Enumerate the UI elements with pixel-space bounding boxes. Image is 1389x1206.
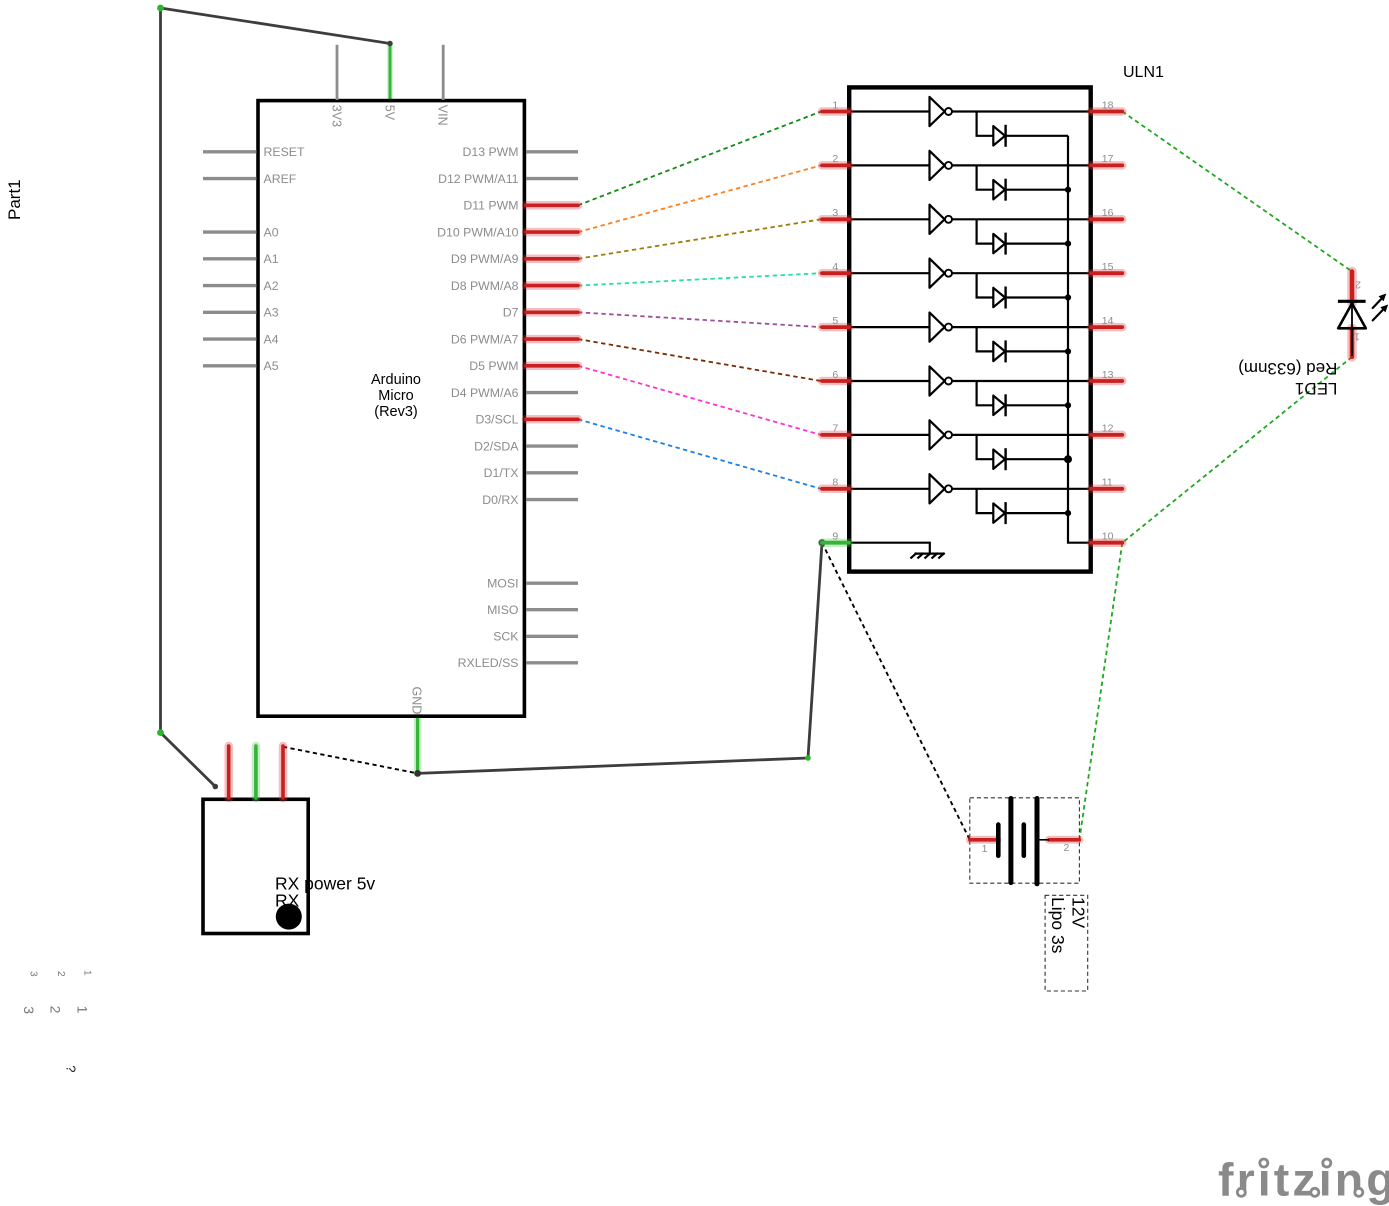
- junction diode rail channel 8: [1065, 510, 1071, 516]
- svg-text:2: 2: [1064, 842, 1070, 854]
- svg-text:ArduinoMicro(Rev3): ArduinoMicro(Rev3): [371, 372, 421, 420]
- svg-text:5: 5: [832, 315, 838, 327]
- pin A3: [203, 306, 279, 320]
- pin D11 PWM: [463, 199, 578, 213]
- LED LED1 lead pin 2: [1347, 272, 1357, 304]
- pin D13 PWM: [462, 145, 578, 159]
- svg-text:MISO: MISO: [487, 603, 518, 617]
- battery plate tall 2: [1035, 799, 1040, 884]
- inverter channel 5 input wire: [851, 326, 930, 328]
- LED LED1 center line: [1351, 301, 1353, 356]
- part RX power 5v body: [203, 799, 308, 933]
- svg-text:Red (633nm): Red (633nm): [1238, 359, 1337, 378]
- svg-text:1: 1: [982, 843, 988, 855]
- pin 2 ULN left: [822, 153, 849, 165]
- pin 5V: [383, 105, 397, 121]
- pin D0/RX: [482, 493, 578, 507]
- LED LED1 emission arrow 2: [1373, 305, 1389, 321]
- pin MISO: [487, 603, 578, 617]
- svg-text:Part1: Part1: [5, 179, 24, 220]
- inverter channel 8 output wire: [952, 488, 1089, 490]
- svg-text:2: 2: [832, 153, 838, 165]
- pin 14 ULN right: [1091, 315, 1122, 327]
- pin D12 PWM/A11: [438, 172, 578, 186]
- svg-text:D12 PWM/A11: D12 PWM/A11: [438, 172, 519, 186]
- wire common diode rail to pin 10: [1068, 136, 1089, 543]
- svg-text:2: 2: [55, 971, 66, 977]
- svg-text:D7: D7: [503, 306, 519, 320]
- diode channel 2 symbol: [993, 179, 1005, 201]
- svg-text:D3/SCL: D3/SCL: [475, 413, 518, 427]
- inverter channel 3 input wire: [851, 218, 930, 220]
- svg-text:1: 1: [832, 99, 838, 111]
- diode channel 6 symbol: [993, 394, 1005, 416]
- node wire end dot near RX: [213, 784, 219, 790]
- svg-text:8: 8: [832, 477, 838, 489]
- pin A0: [203, 226, 279, 240]
- svg-text:D1/TX: D1/TX: [484, 466, 519, 480]
- svg-text:6: 6: [832, 369, 838, 381]
- wire D11 to ULN pin 1: [578, 112, 821, 206]
- svg-text:A0: A0: [264, 226, 279, 240]
- inverter channel 6 output wire: [952, 380, 1089, 382]
- svg-text:3: 3: [27, 971, 38, 977]
- pin SCK: [493, 630, 578, 644]
- svg-text:3: 3: [21, 1006, 37, 1014]
- svg-text:16: 16: [1102, 207, 1114, 219]
- inverter channel 2 output wire: [952, 164, 1089, 166]
- pin A4: [203, 333, 279, 347]
- ground symbol: [910, 553, 944, 559]
- svg-text:A1: A1: [264, 252, 279, 266]
- svg-text:D6 PWM/A7: D6 PWM/A7: [451, 333, 519, 347]
- inverter channel 3 bubble: [945, 216, 952, 223]
- svg-text:D0/RX: D0/RX: [482, 493, 518, 507]
- svg-text:5V: 5V: [383, 105, 397, 121]
- svg-text:17: 17: [1102, 153, 1114, 165]
- inverter channel 6 triangle: [930, 366, 945, 395]
- wire dashed GND to battery pin 1: [822, 543, 970, 840]
- svg-text:RESET: RESET: [264, 145, 305, 159]
- wire dashed RX pin3 to GND junction: [283, 747, 418, 774]
- svg-text:2: 2: [48, 1006, 64, 1014]
- battery plate tall 1: [1008, 799, 1013, 883]
- inverter channel 1 bubble: [945, 108, 952, 115]
- pin D4 PWM/A6: [451, 386, 578, 400]
- wire GND net vertical to ULN pin 9: [808, 543, 822, 758]
- wire 5V net segment top-left horizontal: [161, 8, 391, 44]
- pin GND: [410, 687, 424, 715]
- wire D3 to ULN pin 8: [578, 419, 821, 489]
- battery 12V Lipo 3s outline: [970, 798, 1080, 883]
- inverter channel 1 triangle: [930, 97, 945, 126]
- wire green ULN pin 18 to LED pin 2: [1122, 112, 1352, 272]
- inverter channel 7 output wire: [952, 434, 1089, 436]
- svg-text:GND: GND: [410, 687, 424, 715]
- battery internal lead: [1038, 839, 1049, 841]
- diode channel 1 branch: [977, 112, 1068, 136]
- svg-text:fritzing: fritzing: [1218, 1153, 1389, 1205]
- pin 5 ULN left: [822, 315, 849, 327]
- inverter channel 2 triangle: [930, 151, 945, 180]
- svg-text:D8 PWM/A8: D8 PWM/A8: [451, 279, 519, 293]
- wire D10 to ULN pin 2: [578, 165, 821, 232]
- svg-text:1: 1: [74, 1006, 90, 1014]
- pin RESET: [203, 145, 305, 159]
- svg-text:ULN1: ULN1: [1123, 64, 1164, 81]
- svg-text:D9 PWM/A9: D9 PWM/A9: [451, 252, 519, 266]
- pin 15 ULN right: [1091, 261, 1122, 273]
- svg-text:10: 10: [1102, 531, 1114, 543]
- pin 10 ULN right: [1091, 531, 1122, 543]
- inverter channel 2 bubble: [945, 162, 952, 169]
- svg-text:VIN: VIN: [436, 105, 450, 126]
- pin 1 ULN left: [822, 99, 849, 111]
- inverter channel 6 bubble: [945, 378, 952, 385]
- diode channel 4 symbol: [993, 287, 1005, 309]
- node bendpoint top-left green: [157, 5, 164, 12]
- battery lead pin 2: [1049, 836, 1079, 844]
- inverter channel 1 input wire: [851, 110, 930, 112]
- wire GND net horizontal to ULN: [418, 758, 808, 773]
- pin 16 ULN right: [1091, 207, 1122, 219]
- inverter channel 4 output wire: [952, 272, 1089, 274]
- wire D8 to ULN pin 4: [578, 273, 821, 285]
- pin D3/SCL: [475, 413, 578, 427]
- svg-text:A4: A4: [264, 333, 279, 347]
- pin D8 PWM/A8: [451, 279, 578, 293]
- svg-text:D5 PWM: D5 PWM: [469, 359, 518, 373]
- wire D9 to ULN pin 3: [578, 219, 821, 258]
- wire GND green from Arduino GND pin: [414, 716, 422, 773]
- svg-text:D13 PWM: D13 PWM: [462, 145, 518, 159]
- diode channel 8 symbol: [993, 502, 1005, 524]
- diode channel 8 branch: [977, 489, 1068, 513]
- inverter channel 7 triangle: [930, 420, 945, 449]
- pin 18 ULN right: [1091, 99, 1122, 111]
- pin 1 RX red: [224, 746, 233, 798]
- RX indicator circle: [276, 904, 302, 930]
- pin RXLED/SS: [458, 656, 578, 670]
- pin MOSI: [487, 577, 578, 591]
- LED LED1 cathode bar: [1338, 300, 1366, 303]
- svg-text:9: 9: [832, 531, 838, 543]
- junction ULN pin 9: [819, 539, 826, 546]
- svg-text:18: 18: [1102, 99, 1114, 111]
- svg-text:3V3: 3V3: [330, 105, 344, 127]
- junction diode rail channel 5: [1065, 348, 1071, 354]
- inverter channel 7 bubble: [945, 431, 952, 438]
- pin D5 PWM: [469, 359, 578, 373]
- svg-text:A5: A5: [264, 359, 279, 373]
- inverter channel 1 output wire: [952, 110, 1089, 112]
- pin 17 ULN right: [1091, 153, 1122, 165]
- svg-text:A2: A2: [264, 279, 279, 293]
- pin 3V3: [330, 45, 344, 127]
- inverter channel 2 input wire: [851, 164, 930, 166]
- wire 5V net segment left vertical: [159, 8, 162, 733]
- junction diode rail channel 2: [1065, 187, 1071, 193]
- battery plate short 1: [996, 825, 1001, 856]
- LED LED1 emission arrow 1: [1373, 294, 1387, 309]
- diode channel 5 branch: [977, 327, 1068, 351]
- pin A1: [203, 252, 279, 266]
- svg-text:7: 7: [832, 423, 838, 435]
- svg-text:12: 12: [1102, 423, 1114, 435]
- diode channel 2 branch: [977, 165, 1068, 189]
- pin D10 PWM/A10: [437, 226, 578, 240]
- svg-text:MOSI: MOSI: [487, 577, 518, 591]
- wire D6 to ULN pin 6: [578, 339, 821, 381]
- LED LED1 triangle: [1338, 303, 1366, 328]
- pin D2/SDA: [474, 440, 578, 454]
- pin 4 ULN left: [822, 261, 849, 273]
- svg-text:AREF: AREF: [264, 172, 297, 186]
- svg-text:D10 PWM/A10: D10 PWM/A10: [437, 226, 518, 240]
- pin 3 RX red: [279, 746, 288, 798]
- inverter channel 8 bubble: [945, 485, 952, 492]
- pin 3 ULN left: [822, 207, 849, 219]
- pin 13 ULN right: [1091, 369, 1122, 381]
- junction GND net: [414, 770, 421, 777]
- svg-text:RXLED/SS: RXLED/SS: [458, 656, 519, 670]
- pin AREF: [203, 172, 297, 186]
- inverter channel 5 triangle: [930, 313, 945, 342]
- wire 5V net segment diagonal to RX: [161, 733, 216, 787]
- node bendpoint green near battery wire: [805, 755, 811, 761]
- diode channel 3 branch: [977, 219, 1068, 243]
- junction diode rail channel 6: [1065, 402, 1071, 408]
- wire 5V pin stub green: [387, 44, 393, 101]
- battery label box: [1045, 895, 1088, 991]
- diode channel 4 branch: [977, 273, 1068, 297]
- pin 8 ULN left: [822, 477, 849, 489]
- fritzing logo: [1218, 1153, 1389, 1205]
- inverter channel 4 input wire: [851, 272, 930, 274]
- pin 11 ULN right: [1091, 477, 1122, 489]
- inverter channel 3 output wire: [952, 218, 1089, 220]
- svg-text:1: 1: [82, 970, 93, 976]
- pin labels large row 3 2 1: [21, 1006, 90, 1015]
- diode channel 6 branch: [977, 381, 1068, 405]
- inverter channel 3 triangle: [930, 205, 945, 234]
- inverter channel 8 triangle: [930, 474, 945, 503]
- pin D1/TX: [484, 466, 578, 480]
- diode channel 7 branch: [977, 435, 1068, 459]
- svg-text:14: 14: [1102, 315, 1114, 327]
- inverter channel 8 input wire: [851, 488, 930, 490]
- svg-text:1: 1: [1354, 331, 1360, 343]
- diode channel 5 symbol: [993, 340, 1005, 362]
- svg-text:D11 PWM: D11 PWM: [463, 199, 518, 213]
- svg-text:D2/SDA: D2/SDA: [474, 440, 519, 454]
- wire pin 9 to ground: [851, 543, 930, 554]
- pin 6 ULN left: [822, 369, 849, 381]
- diode channel 3 symbol: [993, 233, 1005, 255]
- inverter channel 4 triangle: [930, 259, 945, 288]
- junction diode rail channel 3: [1065, 241, 1071, 247]
- IC ULN1 body: [849, 87, 1090, 571]
- pin 9 ULN left: [822, 531, 849, 543]
- node bendpoint at 5V pin: [387, 41, 392, 46]
- junction diode rail channel 7: [1064, 455, 1072, 463]
- inverter channel 4 bubble: [945, 270, 952, 277]
- diode channel 7 symbol: [993, 448, 1005, 470]
- pin A5: [203, 359, 279, 373]
- inverter channel 5 output wire: [952, 326, 1089, 328]
- svg-text:13: 13: [1102, 369, 1114, 381]
- pin A2: [203, 279, 279, 293]
- pin D9 PWM/A9: [451, 252, 578, 266]
- junction diode rail channel 4: [1065, 294, 1071, 300]
- svg-text:11: 11: [1102, 477, 1113, 489]
- svg-text:Lipo 3s: Lipo 3s: [1048, 897, 1068, 954]
- svg-text:LED1: LED1: [1295, 379, 1338, 398]
- pin D6 PWM/A7: [451, 333, 578, 347]
- svg-text:4: 4: [832, 261, 838, 273]
- svg-text:12V: 12V: [1069, 897, 1089, 928]
- pin labels small row 3 2 1: [27, 970, 92, 977]
- inverter channel 6 input wire: [851, 380, 930, 382]
- svg-text:?: ?: [63, 1065, 78, 1072]
- pin 7 ULN left: [822, 423, 849, 435]
- pin VIN: [436, 45, 450, 126]
- node bendpoint left-bottom green: [157, 729, 164, 736]
- IC Part1 Arduino Micro (Rev3) body: [258, 101, 524, 717]
- svg-text:15: 15: [1102, 261, 1114, 273]
- svg-text:3: 3: [832, 207, 838, 219]
- battery lead pin 1: [970, 836, 998, 844]
- svg-text:A3: A3: [264, 306, 279, 320]
- diode channel 1 symbol: [993, 125, 1005, 147]
- wire green ULN pin 10 to battery pin 2: [1079, 543, 1122, 840]
- inverter channel 5 bubble: [945, 324, 952, 331]
- pin 2 RX green: [252, 746, 261, 798]
- svg-text:2: 2: [1355, 279, 1361, 291]
- svg-text:SCK: SCK: [493, 630, 519, 644]
- wire D7 to ULN pin 5: [578, 312, 821, 327]
- wire D5 to ULN pin 7: [578, 366, 821, 435]
- battery plate short 2: [1021, 825, 1026, 856]
- LED LED1 lead pin 1: [1347, 328, 1357, 357]
- inverter channel 7 input wire: [851, 434, 930, 436]
- wire green LED pin 1 to ULN pin 10: [1122, 357, 1352, 543]
- pin D7: [503, 306, 578, 320]
- pin 12 ULN right: [1091, 423, 1122, 435]
- svg-text:D4 PWM/A6: D4 PWM/A6: [451, 386, 519, 400]
